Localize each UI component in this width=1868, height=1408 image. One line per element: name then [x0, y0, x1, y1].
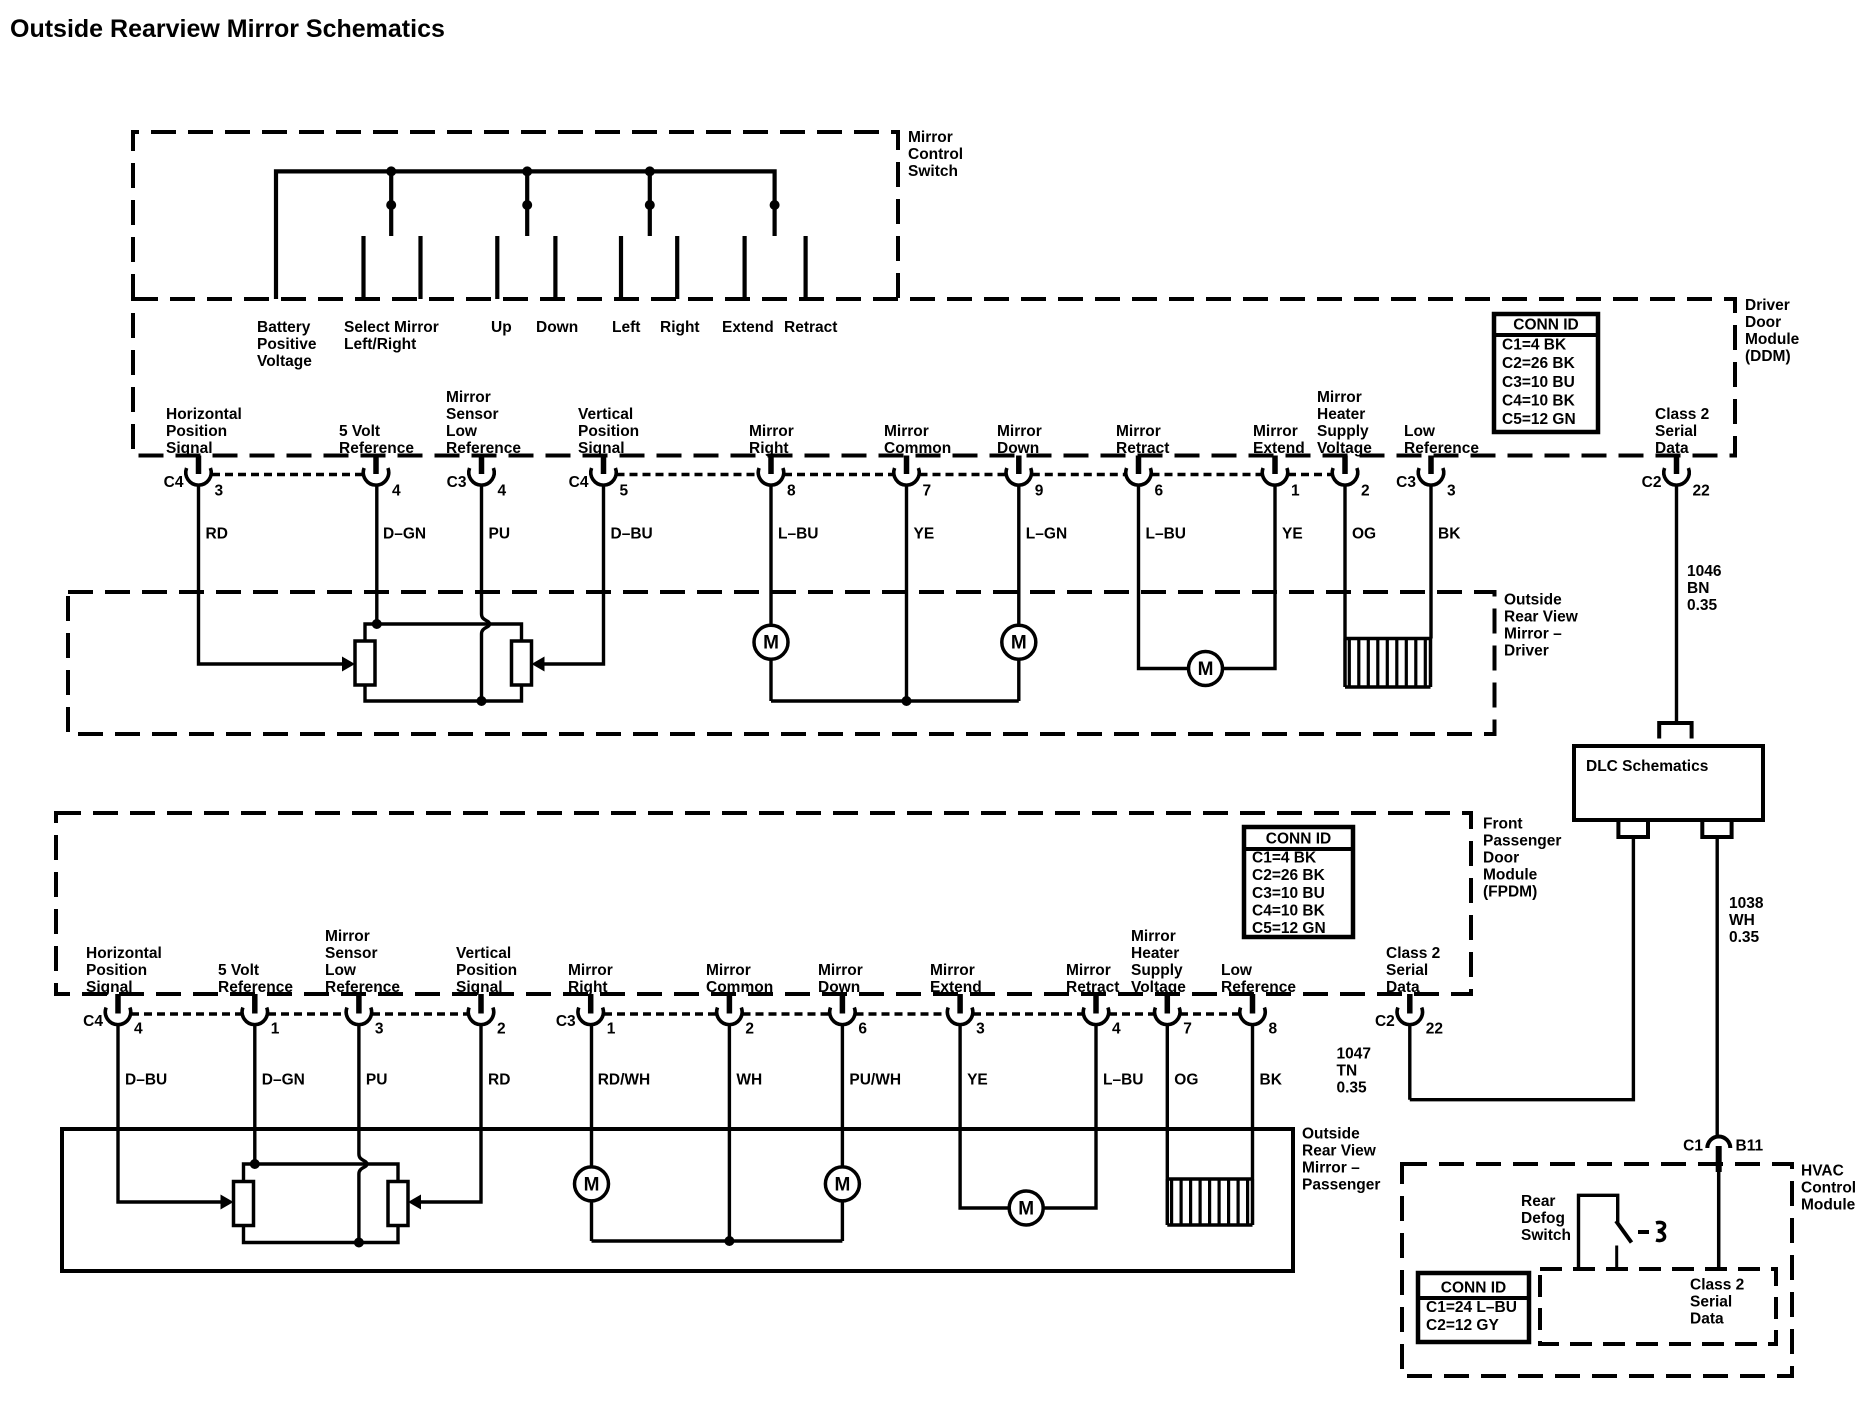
svg-text:C1=4 BK: C1=4 BK: [1252, 850, 1317, 867]
svg-text:Rear View: Rear View: [1504, 609, 1579, 626]
svg-text:M: M: [1011, 633, 1027, 654]
wire C2-22 class 2 serial data (1046): [1675, 486, 1678, 723]
svg-text:Signal: Signal: [86, 979, 133, 996]
svg-text:CONN ID: CONN ID: [1513, 317, 1578, 334]
svg-text:(FPDM): (FPDM): [1483, 884, 1537, 901]
svg-text:B11: B11: [1736, 1138, 1764, 1155]
svg-text:C2: C2: [1642, 474, 1662, 491]
svg-text:Low: Low: [1404, 423, 1436, 440]
svg-text:8: 8: [787, 483, 796, 500]
svg-text:Mirror: Mirror: [1116, 423, 1161, 440]
wire D-BU vertical position: [538, 486, 604, 665]
svg-text:Position: Position: [166, 423, 227, 440]
HVAC control module box: [1402, 1164, 1792, 1376]
wire battery bus: [276, 171, 775, 299]
FPDM CONN ID table: [1244, 827, 1353, 937]
svg-text:Switch: Switch: [1521, 1227, 1571, 1244]
vertical position sensor R4 (pass): [388, 1182, 408, 1226]
wire D-BU horizontal position (pass): [118, 1025, 227, 1202]
svg-text:6: 6: [1155, 483, 1164, 500]
svg-text:TN: TN: [1337, 1063, 1358, 1080]
svg-text:4: 4: [498, 483, 507, 500]
wire YE mirror extend: [1223, 486, 1276, 669]
svg-text:Switch: Switch: [908, 163, 958, 180]
wire PU/WH mirror down (pass): [841, 1025, 844, 1167]
switch contact extend: [742, 236, 746, 299]
svg-text:Positive: Positive: [257, 336, 317, 353]
wire M4 to common rail: [590, 1201, 593, 1241]
svg-text:Mirror: Mirror: [908, 129, 953, 146]
outside rear view mirror driver box: [68, 592, 1495, 734]
svg-text:Serial: Serial: [1386, 962, 1428, 979]
svg-text:Reference: Reference: [218, 979, 293, 996]
svg-text:Low: Low: [446, 423, 478, 440]
svg-text:1038: 1038: [1729, 895, 1764, 912]
horizontal position sensor R1: [355, 641, 375, 685]
dotted connector line C4 group: [617, 473, 759, 477]
svg-text:C2=12 GY: C2=12 GY: [1426, 1317, 1499, 1334]
wire OG heater supply (pass): [1166, 1025, 1169, 1179]
svg-text:Sensor: Sensor: [446, 406, 499, 423]
wire RD/WH mirror right (pass): [590, 1025, 593, 1167]
svg-text:22: 22: [1426, 1021, 1443, 1038]
svg-text:Vertical: Vertical: [578, 406, 633, 423]
wire motor common rail: [771, 699, 1019, 702]
wire sensor top rail (pass): [244, 1164, 399, 1183]
svg-text:CONN ID: CONN ID: [1266, 831, 1331, 848]
svg-text:(DDM): (DDM): [1745, 348, 1791, 365]
wire OG heater supply: [1343, 486, 1346, 639]
svg-text:L–BU: L–BU: [778, 526, 818, 543]
svg-text:L–GN: L–GN: [1026, 526, 1067, 543]
connector staple DLC bottom-right: [1702, 822, 1731, 837]
node mirror common junction (pass): [724, 1236, 734, 1246]
svg-text:Module: Module: [1801, 1197, 1856, 1214]
pin 4 at DDM: [373, 456, 379, 475]
svg-text:Driver: Driver: [1504, 643, 1549, 660]
svg-text:1: 1: [271, 1021, 280, 1038]
svg-text:Heater: Heater: [1317, 406, 1365, 423]
switch contact retract: [803, 236, 807, 299]
svg-text:Module: Module: [1745, 331, 1800, 348]
svg-text:Extend: Extend: [930, 979, 982, 996]
svg-text:Door: Door: [1483, 850, 1519, 867]
svg-text:Mirror: Mirror: [568, 962, 613, 979]
dotted connector line FPDM: [268, 1012, 346, 1016]
pin C3-3 at DDM: [1428, 456, 1434, 475]
svg-text:7: 7: [923, 483, 932, 500]
svg-text:Voltage: Voltage: [1131, 979, 1186, 996]
svg-text:Mirror: Mirror: [325, 928, 370, 945]
svg-text:Mirror: Mirror: [1317, 389, 1362, 406]
svg-text:8: 8: [1269, 1021, 1278, 1038]
wire 1047 TN from DLC to FPDM: [1410, 837, 1634, 1100]
wire WH mirror common (pass): [728, 1025, 731, 1241]
svg-text:Battery: Battery: [257, 319, 311, 336]
svg-text:Mirror: Mirror: [930, 962, 975, 979]
pin 3 at FPDM: [356, 994, 362, 1014]
wire D-GN 5 volt reference (pass): [253, 1025, 256, 1164]
svg-text:Rear View: Rear View: [1302, 1143, 1377, 1160]
svg-text:C3=10 BU: C3=10 BU: [1502, 374, 1575, 391]
rear defog switch: [1579, 1195, 1618, 1269]
svg-text:Data: Data: [1655, 440, 1689, 457]
wire RD vertical position (pass): [415, 1025, 482, 1202]
pin 9 at DDM: [1016, 456, 1022, 475]
HVAC CONN ID table: [1418, 1273, 1529, 1342]
svg-text:2: 2: [745, 1021, 754, 1038]
pin 6 at DDM: [1136, 456, 1142, 475]
dotted connector line FPDM: [1180, 1012, 1240, 1016]
svg-text:CONN ID: CONN ID: [1441, 1280, 1506, 1297]
mirror control switch box: [133, 132, 898, 299]
node pole up-down pivot: [522, 200, 532, 210]
wire switch pole up-down: [525, 171, 529, 236]
svg-text:Passenger: Passenger: [1302, 1177, 1380, 1194]
svg-text:Outside: Outside: [1504, 592, 1562, 609]
switch contact select-left: [361, 236, 365, 299]
svg-text:C4: C4: [164, 474, 184, 491]
svg-text:Left: Left: [612, 319, 640, 336]
svg-text:Mirror: Mirror: [818, 962, 863, 979]
svg-text:Driver: Driver: [1745, 297, 1790, 314]
svg-text:Extend: Extend: [1253, 440, 1305, 457]
svg-text:C3=10 BU: C3=10 BU: [1252, 885, 1325, 902]
svg-text:WH: WH: [736, 1072, 762, 1089]
svg-text:Position: Position: [578, 423, 639, 440]
svg-text:22: 22: [1693, 483, 1710, 500]
svg-text:Reference: Reference: [1221, 979, 1296, 996]
svg-text:Select Mirror: Select Mirror: [344, 319, 439, 336]
svg-text:Mirror –: Mirror –: [1302, 1160, 1360, 1177]
switch contact right: [675, 236, 679, 299]
svg-text:Left/Right: Left/Right: [344, 336, 416, 353]
svg-text:Front: Front: [1483, 816, 1523, 833]
dotted connector line FPDM: [973, 1012, 1083, 1016]
svg-text:RD/WH: RD/WH: [598, 1072, 651, 1089]
svg-text:Rear: Rear: [1521, 1193, 1555, 1210]
pin 7 at FPDM: [1165, 994, 1171, 1014]
svg-text:HVAC: HVAC: [1801, 1163, 1844, 1180]
svg-text:PU: PU: [489, 526, 511, 543]
svg-text:Mirror: Mirror: [1253, 423, 1298, 440]
pin C4-4 at FPDM: [115, 994, 121, 1014]
svg-text:Signal: Signal: [456, 979, 503, 996]
svg-text:Retract: Retract: [1116, 440, 1169, 457]
svg-text:RD: RD: [488, 1072, 510, 1089]
svg-text:Class 2: Class 2: [1690, 1277, 1744, 1294]
wire L-GN mirror down: [1017, 486, 1020, 626]
svg-text:0.35: 0.35: [1337, 1080, 1368, 1097]
svg-text:Horizontal: Horizontal: [166, 406, 242, 423]
svg-text:3: 3: [375, 1021, 384, 1038]
svg-text:C5=12 GN: C5=12 GN: [1252, 920, 1326, 937]
svg-text:1: 1: [607, 1021, 616, 1038]
wire YE mirror extend (pass): [960, 1025, 1009, 1208]
svg-text:Common: Common: [706, 979, 773, 996]
svg-text:Low: Low: [1221, 962, 1253, 979]
svg-text:Outside Rearview Mirror Schema: Outside Rearview Mirror Schematics: [10, 15, 445, 43]
svg-text:7: 7: [1183, 1021, 1192, 1038]
wire PU sensor low ref with hop: [482, 486, 490, 702]
svg-text:Right: Right: [749, 440, 789, 457]
svg-text:Supply: Supply: [1317, 423, 1369, 440]
wire switch pole select: [389, 171, 393, 236]
svg-text:C4: C4: [569, 474, 589, 491]
svg-text:Position: Position: [456, 962, 517, 979]
svg-text:M: M: [584, 1174, 600, 1195]
node low ref junction driver: [477, 696, 487, 706]
svg-text:D–GN: D–GN: [383, 526, 426, 543]
DLC Schematics box: [1574, 746, 1763, 820]
wire 1038 WH from DLC to HVAC: [1715, 837, 1718, 1137]
connector staple DLC bottom-left: [1618, 822, 1648, 837]
switch contact select-right: [418, 236, 422, 299]
node pole select pivot: [386, 200, 396, 210]
svg-text:BK: BK: [1260, 1072, 1283, 1089]
dotted connector line FPDM: [743, 1012, 830, 1016]
heater element passenger: [1167, 1177, 1252, 1181]
svg-text:Voltage: Voltage: [1317, 440, 1372, 457]
svg-text:C1: C1: [1683, 1138, 1703, 1155]
horizontal position sensor R3 (pass): [234, 1182, 254, 1226]
wire C2-22 class 2 serial data (1047): [1408, 1025, 1411, 1100]
svg-text:0.35: 0.35: [1729, 929, 1760, 946]
svg-text:Reference: Reference: [1404, 440, 1479, 457]
node mirror common junction: [902, 696, 912, 706]
svg-text:BK: BK: [1438, 526, 1461, 543]
svg-text:OG: OG: [1352, 526, 1376, 543]
pin 2 at FPDM: [478, 994, 484, 1014]
svg-text:C3: C3: [1396, 474, 1416, 491]
pin 1 at DDM: [1272, 456, 1278, 475]
svg-text:Serial: Serial: [1655, 423, 1697, 440]
svg-text:C1=4 BK: C1=4 BK: [1502, 337, 1567, 354]
svg-text:5 Volt: 5 Volt: [218, 962, 259, 979]
svg-text:Down: Down: [818, 979, 860, 996]
svg-text:Mirror: Mirror: [1066, 962, 1111, 979]
pin C1 B11 at HVAC: [1707, 1137, 1730, 1149]
svg-text:3: 3: [976, 1021, 985, 1038]
wire L-BU mirror right: [769, 486, 772, 626]
pin C3-4 at DDM: [479, 456, 485, 475]
svg-text:Door: Door: [1745, 314, 1781, 331]
pin 6 at FPDM: [840, 994, 846, 1014]
dotted connector line FPDM: [372, 1012, 468, 1016]
svg-text:Serial: Serial: [1690, 1294, 1732, 1311]
dotted connector line FPDM: [604, 1012, 716, 1016]
svg-text:Retract: Retract: [784, 319, 837, 336]
switch contact down: [553, 236, 557, 299]
svg-text:RD: RD: [206, 526, 228, 543]
svg-text:5 Volt: 5 Volt: [339, 423, 380, 440]
svg-text:C4=10 BK: C4=10 BK: [1502, 392, 1576, 409]
svg-text:Down: Down: [997, 440, 1039, 457]
svg-text:YE: YE: [914, 526, 935, 543]
pin C4-5 at DDM: [601, 456, 607, 475]
svg-text:C4: C4: [83, 1013, 103, 1030]
wire RD horizontal position: [199, 486, 349, 665]
svg-text:Reference: Reference: [446, 440, 521, 457]
svg-text:Mirror: Mirror: [749, 423, 794, 440]
pin 2 at FPDM: [727, 994, 733, 1014]
svg-text:Mirror –: Mirror –: [1504, 626, 1562, 643]
svg-text:Class 2: Class 2: [1386, 945, 1440, 962]
svg-text:Low: Low: [325, 962, 357, 979]
svg-text:Extend: Extend: [722, 319, 774, 336]
svg-text:Control: Control: [1801, 1180, 1856, 1197]
driver door module (DDM) box: [133, 299, 1735, 456]
svg-text:6: 6: [858, 1021, 867, 1038]
pin C4-3 at DDM: [196, 456, 202, 475]
motor M3 mirror extend-retract drive: [1189, 652, 1223, 686]
wire L-BU mirror retract (pass): [1043, 1025, 1096, 1208]
svg-text:Right: Right: [568, 979, 608, 996]
pin 4 at FPDM: [1093, 994, 1099, 1014]
svg-text:Position: Position: [86, 962, 147, 979]
connector staple DLC top: [1659, 723, 1691, 739]
svg-text:Mirror: Mirror: [997, 423, 1042, 440]
wire switch pole left-right: [648, 171, 652, 236]
pin 2 at DDM: [1342, 456, 1348, 475]
wire motor common rail (pass): [592, 1239, 843, 1242]
svg-text:C4=10 BK: C4=10 BK: [1252, 902, 1326, 919]
svg-text:Class 2: Class 2: [1655, 406, 1709, 423]
node 5V junction passenger: [250, 1159, 260, 1169]
svg-text:Control: Control: [908, 146, 963, 163]
svg-text:3: 3: [1447, 483, 1456, 500]
svg-text:2: 2: [1361, 483, 1370, 500]
svg-text:Heater: Heater: [1131, 945, 1179, 962]
svg-text:0.35: 0.35: [1687, 597, 1718, 614]
dotted connector line C4 group: [1152, 473, 1263, 477]
svg-text:L–BU: L–BU: [1146, 526, 1186, 543]
svg-text:2: 2: [497, 1021, 506, 1038]
dotted connector line C4 group: [1288, 473, 1332, 477]
class 2 serial data inner box: [1540, 1269, 1776, 1344]
svg-text:Reference: Reference: [339, 440, 414, 457]
front passenger door module (FPDM) box: [56, 813, 1471, 994]
node 5V junction driver: [372, 619, 382, 629]
svg-text:Retract: Retract: [1066, 979, 1119, 996]
wire M1 to common rail: [769, 659, 772, 701]
svg-text:M: M: [1018, 1199, 1034, 1220]
svg-text:Supply: Supply: [1131, 962, 1183, 979]
svg-text:M: M: [834, 1174, 850, 1195]
svg-text:1046: 1046: [1687, 563, 1722, 580]
svg-text:DLC Schematics: DLC Schematics: [1586, 758, 1708, 775]
svg-text:C3: C3: [556, 1013, 576, 1030]
svg-text:C2: C2: [1375, 1013, 1395, 1030]
motor M1 mirror right-left drive: [754, 625, 788, 659]
node pole left-right pivot: [645, 200, 655, 210]
svg-text:C1=24 L–BU: C1=24 L–BU: [1426, 1299, 1517, 1316]
node bus junction 2: [522, 166, 532, 176]
svg-text:D–BU: D–BU: [125, 1072, 167, 1089]
svg-text:5: 5: [620, 483, 629, 500]
vertical position sensor R2: [512, 641, 532, 685]
svg-text:Sensor: Sensor: [325, 945, 378, 962]
svg-text:Outside: Outside: [1302, 1126, 1360, 1143]
heater element driver: [1345, 637, 1431, 641]
switch contact up: [495, 236, 499, 299]
svg-text:PU/WH: PU/WH: [849, 1072, 901, 1089]
svg-text:Mirror: Mirror: [1131, 928, 1176, 945]
dotted connector line FPDM: [856, 1012, 948, 1016]
svg-text:Right: Right: [660, 319, 700, 336]
wire BK heater ground (pass): [1251, 1025, 1254, 1179]
svg-text:YE: YE: [1282, 526, 1303, 543]
pin C2-22 at DDM: [1674, 456, 1680, 475]
pin C2-22 at FPDM: [1407, 994, 1413, 1014]
dotted connector line FPDM: [1109, 1012, 1155, 1016]
svg-text:Mirror: Mirror: [446, 389, 491, 406]
svg-text:Module: Module: [1483, 867, 1538, 884]
svg-text:Horizontal: Horizontal: [86, 945, 162, 962]
svg-text:Common: Common: [884, 440, 951, 457]
dotted connector line C4 pins 3-4: [212, 473, 363, 477]
svg-text:4: 4: [134, 1021, 143, 1038]
svg-text:C2=26 BK: C2=26 BK: [1252, 867, 1326, 884]
wire L-BU mirror retract: [1139, 486, 1189, 669]
svg-text:Vertical: Vertical: [456, 945, 511, 962]
svg-text:Passenger: Passenger: [1483, 833, 1561, 850]
switch contact left: [619, 236, 623, 299]
outside rear view mirror passenger box: [62, 1129, 1293, 1271]
wire D-GN 5 volt reference: [375, 486, 378, 625]
svg-text:Mirror: Mirror: [884, 423, 929, 440]
svg-text:Up: Up: [491, 319, 512, 336]
svg-text:M: M: [1198, 659, 1214, 680]
motor M5 mirror up-down drive (pass): [825, 1167, 859, 1201]
svg-text:C3: C3: [447, 474, 467, 491]
pin 8 at FPDM: [1250, 994, 1256, 1014]
svg-text:Voltage: Voltage: [257, 353, 312, 370]
node bus junction 1: [386, 166, 396, 176]
dotted connector line C4 group: [1032, 473, 1126, 477]
svg-text:Data: Data: [1690, 1311, 1724, 1328]
svg-text:M: M: [763, 633, 779, 654]
svg-text:C5=12 GN: C5=12 GN: [1502, 411, 1576, 428]
node pole extend-retract pivot: [770, 200, 780, 210]
motor M2 mirror up-down drive: [1002, 625, 1036, 659]
wire M5 to common rail: [841, 1201, 844, 1241]
svg-text:BN: BN: [1687, 580, 1709, 597]
pin 1 at FPDM: [252, 994, 258, 1014]
wire sensor bottom rail (pass): [244, 1225, 399, 1243]
svg-text:YE: YE: [967, 1072, 988, 1089]
svg-text:Down: Down: [536, 319, 578, 336]
svg-text:C2=26 BK: C2=26 BK: [1502, 355, 1576, 372]
motor M6 mirror extend-retract drive (pass): [1009, 1191, 1043, 1225]
DDM CONN ID table: [1494, 314, 1598, 432]
wire M2 to common rail: [1017, 659, 1020, 701]
svg-text:PU: PU: [366, 1072, 388, 1089]
svg-text:D–BU: D–BU: [611, 526, 653, 543]
svg-text:3: 3: [215, 483, 224, 500]
svg-text:4: 4: [1112, 1021, 1121, 1038]
svg-text:Data: Data: [1386, 979, 1420, 996]
svg-text:9: 9: [1035, 483, 1044, 500]
dotted connector line C4 group: [784, 473, 894, 477]
pin 7 at DDM: [904, 456, 910, 475]
pin 3 at FPDM: [957, 994, 963, 1014]
dotted connector line C4 group: [920, 473, 1006, 477]
svg-text:L–BU: L–BU: [1103, 1072, 1143, 1089]
wire sensor bottom rail: [365, 684, 522, 701]
pin C3-1 at FPDM: [588, 994, 594, 1014]
svg-text:Signal: Signal: [578, 440, 625, 457]
